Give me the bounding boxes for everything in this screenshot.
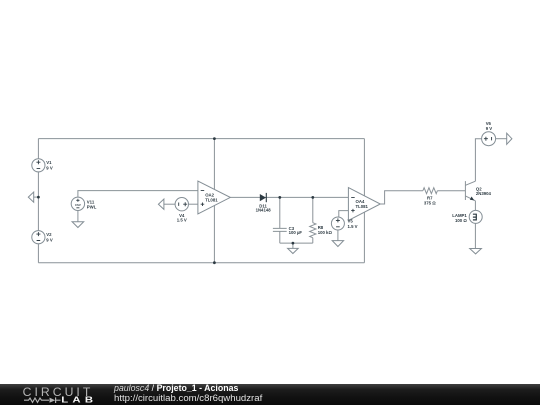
wire V6 to Q2 collector xyxy=(475,139,481,182)
voltage source V4 xyxy=(175,198,188,223)
node left rail mid junction xyxy=(37,196,40,199)
op-amp OA4 TL081 xyxy=(348,188,380,221)
node OA2 power top xyxy=(213,137,216,140)
wire V6 to ground xyxy=(496,138,507,140)
wire V5 to ground xyxy=(337,230,339,241)
wire top rail V+ xyxy=(38,138,364,140)
ground below V5 xyxy=(332,241,343,247)
resistor R7 375 xyxy=(423,188,438,206)
voltage source V11 PWL xyxy=(71,197,97,210)
voltage source V5 xyxy=(331,217,357,230)
node OA2 power bottom xyxy=(213,261,216,264)
wire Q2 emitter to LAMP1 and ground xyxy=(474,201,476,249)
wire OA4 noninverting input to V5 xyxy=(339,211,349,217)
ground left of V4 xyxy=(158,199,164,209)
node diode to C3 junction xyxy=(278,196,281,199)
wire OA4 output to R7 xyxy=(380,191,423,204)
wire OA2 output to OA4 inverting input xyxy=(230,196,348,198)
lamp LAMP1 100 xyxy=(452,210,482,223)
wire V11 to ground xyxy=(77,211,79,222)
svg-text:LAB: LAB xyxy=(61,396,97,405)
capacitor C3 100uF xyxy=(273,226,303,235)
breadcrumb text xyxy=(114,383,238,393)
wire C3 branch xyxy=(279,197,281,243)
wire V4 to OA2 noninverting input xyxy=(189,203,198,205)
resistor R8 100k xyxy=(310,223,333,238)
transistor Q2 2N3904 xyxy=(465,181,491,201)
ground G1 left rail xyxy=(28,192,38,202)
node R8 top junction xyxy=(311,196,314,199)
voltage source V2 xyxy=(32,231,53,244)
wire OA2 power xyxy=(213,139,215,263)
wire RC bottom xyxy=(280,242,313,244)
op-amp OA2 TL081 xyxy=(198,181,230,214)
ground right of V6 xyxy=(507,133,512,144)
ground below RC xyxy=(288,248,299,253)
ground below V11 xyxy=(72,222,84,228)
ground below LAMP1 xyxy=(470,249,482,254)
url text xyxy=(114,393,262,404)
wire left branch xyxy=(37,139,39,263)
diode D11 1N4148 xyxy=(256,193,272,213)
wire R8 branch xyxy=(312,197,314,243)
voltage source V1 xyxy=(32,159,53,172)
wire OA4 power xyxy=(363,139,365,263)
wire R7 to Q2 base xyxy=(437,190,465,192)
footer bar xyxy=(0,384,540,405)
node RC ground junction xyxy=(292,242,295,245)
wire V11 to OA2 inverting input xyxy=(78,191,198,198)
voltage source V6 xyxy=(482,121,496,146)
wire RC ground stub xyxy=(292,243,294,248)
wire bottom rail V- xyxy=(38,262,364,264)
wire V4 to ground xyxy=(164,203,175,205)
